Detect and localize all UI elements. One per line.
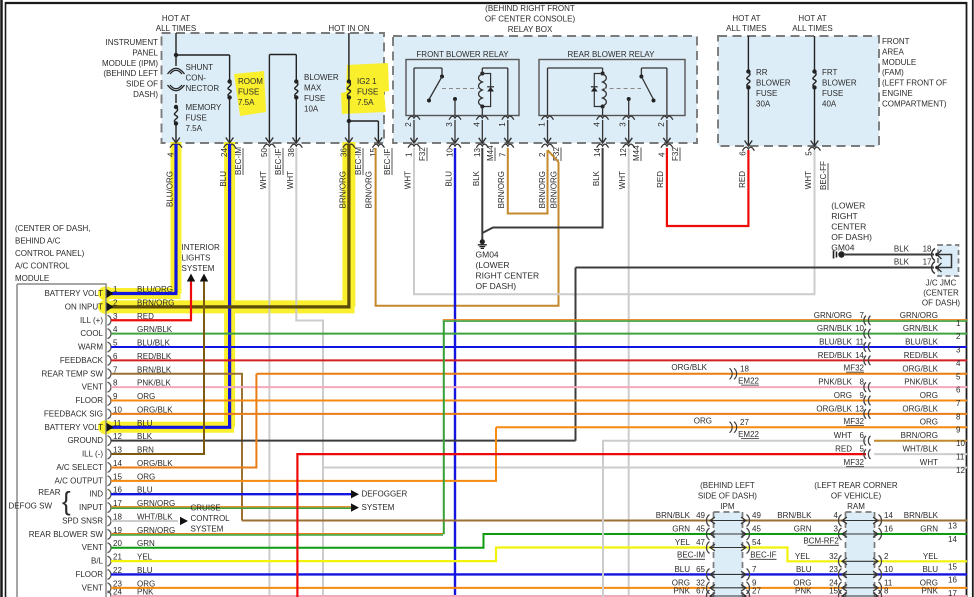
svg-text:7.5A: 7.5A	[238, 98, 255, 107]
node J/C row 1	[864, 316, 866, 326]
svg-text:13: 13	[855, 404, 864, 413]
svg-text:24: 24	[220, 148, 229, 157]
svg-text:RED/BLK: RED/BLK	[904, 351, 939, 360]
svg-text:PNK: PNK	[922, 587, 939, 596]
svg-text:RIGHT CENTER: RIGHT CENTER	[476, 271, 540, 281]
wire ORG/BLK: module pin14 up to EM22 row	[111, 374, 256, 468]
svg-text:WHT: WHT	[286, 171, 295, 189]
svg-text:(FAM): (FAM)	[882, 68, 904, 77]
svg-text:HOT IN ON: HOT IN ON	[328, 24, 369, 33]
svg-text:A/C SELECT: A/C SELECT	[56, 463, 103, 472]
svg-text:ON INPUT: ON INPUT	[65, 302, 103, 311]
ground GM04 (lower right center of dash)	[480, 239, 485, 244]
strip row YEL	[707, 542, 710, 554]
svg-text:BRN/ORG: BRN/ORG	[497, 171, 506, 208]
svg-text:ALL TIMES: ALL TIMES	[726, 24, 766, 33]
svg-text:4: 4	[593, 122, 602, 127]
svg-text:HOT AT: HOT AT	[162, 14, 190, 23]
svg-text:6: 6	[956, 386, 961, 395]
svg-text:(LEFT FRONT OF: (LEFT FRONT OF	[882, 79, 947, 88]
wire WHT: IPM pin38 with jog, down off page	[296, 148, 323, 597]
svg-text:27: 27	[752, 587, 761, 596]
wire BRN/ORG: relay pin7 to rear relay pin2 (U link)	[508, 148, 548, 214]
module pin 23 ORG	[108, 583, 112, 593]
svg-text:14: 14	[884, 511, 893, 520]
svg-text:WHT: WHT	[404, 171, 413, 189]
svg-text:38: 38	[287, 148, 296, 157]
svg-text:BLU: BLU	[674, 565, 690, 574]
svg-text:18: 18	[923, 245, 932, 254]
svg-text:10A: 10A	[304, 105, 319, 114]
svg-text:BLU/ORG: BLU/ORG	[137, 285, 173, 294]
svg-text:(BEHIND LEFT: (BEHIND LEFT	[700, 481, 755, 490]
svg-text:10: 10	[884, 565, 893, 574]
svg-text:1: 1	[498, 122, 507, 127]
svg-text:7.5A: 7.5A	[357, 98, 374, 107]
strip row ORG	[707, 582, 710, 594]
svg-text:SIDE OF: SIDE OF	[126, 80, 158, 89]
svg-text:GRN/ORG: GRN/ORG	[900, 311, 938, 320]
svg-text:BRN/ORG: BRN/ORG	[550, 171, 559, 208]
svg-text:PNK: PNK	[795, 587, 812, 596]
svg-text:11: 11	[113, 419, 122, 428]
svg-text:MF32: MF32	[844, 363, 865, 372]
ground GM04 (second symbol)	[834, 251, 837, 259]
relay box	[393, 36, 697, 143]
svg-text:18: 18	[740, 364, 749, 373]
J/C JMC box (center of dash)	[938, 245, 959, 276]
wire GRN/BLK: module pin4 to right edge	[111, 333, 967, 335]
svg-text:ALL TIMES: ALL TIMES	[156, 24, 196, 33]
module pin 5 BLU/BLK	[108, 342, 112, 352]
svg-text:IG2 1: IG2 1	[357, 77, 377, 86]
svg-text:6: 6	[738, 151, 747, 156]
svg-text:CONTROL: CONTROL	[191, 514, 231, 523]
svg-text:BATTERY VOLT: BATTERY VOLT	[44, 423, 103, 432]
module pin 8 PNK/BLK	[108, 382, 112, 392]
wire BRN/BLK: module pin7 down to IPM connector row	[111, 374, 242, 521]
svg-text:{: {	[62, 486, 71, 516]
svg-text:(LEFT REAR CORNER: (LEFT REAR CORNER	[814, 481, 898, 490]
svg-text:ALL TIMES: ALL TIMES	[792, 24, 832, 33]
svg-text:GRN/ORG: GRN/ORG	[814, 311, 852, 320]
svg-text:GRN: GRN	[920, 525, 938, 534]
svg-text:WHT/BLK: WHT/BLK	[902, 445, 938, 454]
wire ORG row to EM22 pin27 and right edge	[496, 426, 967, 428]
svg-text:8: 8	[884, 587, 889, 596]
svg-text:VENT: VENT	[82, 543, 103, 552]
relay box output pins	[408, 144, 420, 148]
highlight IG2 1 FUSE label	[341, 63, 389, 114]
svg-text:BEC-IF: BEC-IF	[383, 149, 392, 175]
svg-text:ENGINE: ENGINE	[882, 89, 913, 98]
module pin 20 GRN	[108, 543, 112, 553]
svg-text:3: 3	[445, 122, 454, 127]
svg-text:NECTOR: NECTOR	[186, 84, 220, 93]
svg-text:2: 2	[404, 122, 413, 127]
svg-text:REAR BLOWER RELAY: REAR BLOWER RELAY	[568, 50, 656, 59]
svg-text:VENT: VENT	[82, 583, 103, 592]
svg-text:8: 8	[860, 378, 865, 387]
node J/C row 11	[864, 449, 866, 459]
RAM strip outline	[846, 512, 875, 597]
svg-text:MODULE: MODULE	[15, 274, 49, 283]
svg-text:J/C JMC: J/C JMC	[926, 279, 957, 288]
svg-text:OF DASH): OF DASH)	[476, 281, 517, 291]
cruise control system arrow	[180, 517, 188, 525]
wire GRN/ORG: module pin19 up to J/C row 1	[111, 533, 443, 535]
wire BLK: module pin12 to J/C (vertical drawn above)	[111, 440, 576, 442]
svg-text:ILL (+): ILL (+)	[80, 316, 103, 325]
svg-text:30A: 30A	[756, 100, 771, 109]
svg-text:SHUNT: SHUNT	[186, 63, 214, 72]
svg-text:27: 27	[740, 418, 749, 427]
svg-text:10: 10	[956, 439, 965, 448]
svg-text:WHT: WHT	[920, 458, 938, 467]
svg-text:RED: RED	[738, 171, 747, 188]
svg-text:A/C OUTPUT: A/C OUTPUT	[55, 476, 104, 485]
svg-text:45: 45	[696, 525, 705, 534]
connector EM22 pin18	[734, 368, 737, 379]
wire WHT: relay pin1 to FAM pin5	[414, 148, 815, 294]
svg-text:ORG: ORG	[694, 416, 712, 425]
svg-text:65: 65	[696, 565, 705, 574]
svg-text:OF CENTER CONSOLE): OF CENTER CONSOLE)	[485, 15, 576, 24]
svg-text:MF32: MF32	[844, 417, 865, 426]
node J/C row 8	[864, 409, 866, 419]
svg-text:GM04: GM04	[476, 250, 499, 260]
svg-text:FRONT: FRONT	[882, 37, 910, 46]
svg-text:BRN/ORG: BRN/ORG	[365, 171, 374, 208]
svg-text:ORG: ORG	[920, 418, 938, 427]
module pin 19 GRN/ORG	[108, 529, 112, 539]
svg-text:5: 5	[860, 445, 865, 454]
svg-text:WHT: WHT	[618, 171, 627, 189]
wire BLK: GM04 to J/C JMC pin 18	[845, 254, 934, 256]
node J/C row 2	[864, 329, 866, 339]
wire BRN/BLK row 13 to right edge	[242, 520, 967, 522]
svg-text:14: 14	[948, 535, 957, 544]
node J/C row 3	[864, 342, 866, 352]
wire RED: module pin3 to interior lights	[111, 282, 191, 321]
svg-text:ORG/BLK: ORG/BLK	[671, 363, 707, 372]
wire ORG/BLK: module pin10 to right edge	[111, 413, 967, 415]
svg-text:7: 7	[956, 399, 961, 408]
svg-text:BEC-IM: BEC-IM	[677, 551, 705, 560]
svg-text:YEL: YEL	[675, 538, 691, 547]
svg-text:BLU: BLU	[922, 565, 938, 574]
wire GRN: module pin20 up to strip row	[111, 534, 967, 548]
svg-text:BLOWER: BLOWER	[304, 73, 339, 82]
svg-text:14: 14	[593, 148, 602, 157]
node J/C row 4	[864, 356, 866, 366]
svg-text:BLU/BLK: BLU/BLK	[819, 338, 853, 347]
wire BLU: relay pin10 down off page	[454, 148, 456, 597]
svg-text:MF32: MF32	[844, 458, 865, 467]
svg-text:F32: F32	[671, 147, 680, 161]
blower max fuse 10A jumper	[268, 55, 270, 143]
svg-text:BLU: BLU	[445, 171, 454, 187]
svg-text:WHT: WHT	[259, 171, 268, 189]
module pin 22 BLU	[108, 569, 112, 579]
svg-text:BLOWER: BLOWER	[822, 79, 857, 88]
svg-text:BEC-IF: BEC-IF	[274, 149, 283, 175]
svg-text:49: 49	[752, 511, 761, 520]
svg-text:5: 5	[805, 151, 814, 156]
svg-text:13: 13	[473, 148, 482, 157]
svg-text:1: 1	[113, 285, 118, 294]
svg-text:DEFOGGER: DEFOGGER	[362, 490, 408, 499]
svg-text:6: 6	[860, 431, 865, 440]
svg-text:FLOOR: FLOOR	[75, 396, 103, 405]
svg-text:YEL: YEL	[923, 552, 939, 561]
svg-text:BLU: BLU	[219, 171, 228, 187]
svg-text:4: 4	[657, 152, 666, 157]
svg-text:2: 2	[657, 122, 666, 127]
svg-text:BRN/ORG: BRN/ORG	[538, 171, 547, 208]
wire WHT: IPM pin50 down off page	[268, 148, 270, 597]
wire RED: from bottom edge up to J/C row 11	[297, 454, 866, 597]
svg-text:SYSTEM: SYSTEM	[182, 264, 215, 273]
IPM strip outline	[714, 512, 743, 597]
svg-text:ORG: ORG	[834, 391, 852, 400]
svg-text:REAR TEMP SW: REAR TEMP SW	[42, 369, 104, 378]
svg-text:2: 2	[884, 552, 889, 561]
svg-text:(LOWER: (LOWER	[476, 260, 510, 270]
memory fuse 7.5A	[174, 105, 178, 109]
module pin 4 GRN/BLK	[108, 329, 112, 339]
svg-text:MODULE (IPM): MODULE (IPM)	[102, 59, 158, 68]
svg-text:CRUISE: CRUISE	[191, 504, 221, 513]
svg-text:CONTROL PANEL): CONTROL PANEL)	[15, 249, 85, 258]
svg-text:ORG/BLK: ORG/BLK	[816, 404, 852, 413]
svg-text:GRN/BLK: GRN/BLK	[903, 324, 939, 333]
svg-text:17: 17	[948, 589, 957, 597]
svg-text:INTERIOR: INTERIOR	[182, 243, 220, 252]
svg-text:7: 7	[498, 152, 507, 157]
svg-text:CENTER: CENTER	[831, 222, 866, 232]
svg-text:BRN/ORG: BRN/ORG	[137, 298, 174, 307]
svg-text:1: 1	[405, 152, 414, 157]
room fuse 7.5A	[229, 55, 231, 80]
svg-text:VENT: VENT	[82, 383, 103, 392]
svg-text:2: 2	[113, 298, 118, 307]
svg-text:40A: 40A	[822, 100, 837, 109]
svg-text:SYSTEM: SYSTEM	[362, 503, 395, 512]
module pin 10 ORG/BLK	[108, 409, 112, 419]
svg-text:B/L: B/L	[91, 557, 104, 566]
svg-text:PNK/BLK: PNK/BLK	[818, 378, 852, 387]
svg-text:SYSTEM: SYSTEM	[191, 525, 224, 534]
YEL jog row via RAM pin32	[839, 555, 842, 567]
svg-text:RELAY BOX: RELAY BOX	[508, 25, 553, 34]
wire BLU: module pin22 to right edge	[111, 573, 967, 575]
svg-text:3: 3	[834, 525, 839, 534]
highlight ROOM FUSE label	[234, 71, 266, 116]
svg-text:DASH): DASH)	[133, 90, 158, 99]
page border frame	[0, 0, 3, 597]
svg-text:BLU/BLK: BLU/BLK	[905, 338, 939, 347]
rear blower relay	[539, 60, 685, 116]
svg-text:4: 4	[472, 122, 481, 127]
wire WHT: from bottom edge up to J/C row 10	[603, 441, 866, 597]
svg-text:54: 54	[752, 538, 761, 547]
svg-text:2: 2	[538, 152, 547, 157]
FAM output pins 6,5	[742, 147, 754, 151]
strip row BLU	[707, 568, 710, 580]
svg-text:GRN: GRN	[794, 525, 812, 534]
wire BRN/ORG: IPM pin15 to rear blower relay pin1	[376, 148, 559, 306]
wire GRN/ORG row1 to right edge	[443, 319, 967, 321]
svg-text:BEC-IM: BEC-IM	[234, 147, 243, 175]
RR blower fuse 30A	[747, 36, 749, 70]
wire ORG: module pin15 up to EM22 row	[111, 427, 496, 481]
svg-text:BATTERY VOLT: BATTERY VOLT	[44, 289, 103, 298]
svg-text:REAR BLOWER SW: REAR BLOWER SW	[29, 530, 104, 539]
wire PNK/BLK: module pin8 to right edge	[111, 386, 967, 388]
module pin 1 BLU/ORG	[107, 289, 114, 298]
svg-text:BRN/BLK: BRN/BLK	[777, 511, 812, 520]
svg-text:FUSE: FUSE	[822, 89, 843, 98]
wire BLK: relay pin14 joins ground wire	[482, 148, 602, 233]
svg-text:OF VEHICLE): OF VEHICLE)	[831, 492, 882, 501]
svg-text:A/C CONTROL: A/C CONTROL	[15, 262, 70, 271]
wire ORG: module pin9 to right edge	[111, 400, 967, 402]
wire RED/BLK: module pin6 to right edge	[111, 359, 967, 361]
svg-text:8: 8	[956, 412, 961, 421]
svg-text:36: 36	[339, 148, 348, 157]
svg-text:GRN: GRN	[672, 525, 690, 534]
svg-text:OF DASH): OF DASH)	[831, 232, 872, 242]
svg-text:IPM: IPM	[720, 502, 735, 511]
svg-text:GRN/BLK: GRN/BLK	[817, 324, 853, 333]
highlight marker trails	[171, 142, 182, 294]
wire BLK: relay pin13 to ground GM04	[481, 148, 483, 243]
strip row GRN	[707, 528, 710, 540]
svg-text:PNK: PNK	[674, 587, 691, 596]
module pin 24 PNK	[108, 591, 112, 597]
svg-text:BLOWER: BLOWER	[756, 79, 791, 88]
svg-text:BRN/BLK: BRN/BLK	[904, 511, 939, 520]
wire WHT: rear relay pin12 down off page	[628, 148, 630, 597]
svg-text:HOT AT: HOT AT	[732, 14, 760, 23]
module pin 15 ORG	[108, 476, 112, 486]
wire ORG: module pin23 to right edge	[111, 587, 967, 589]
svg-text:BEC-IF: BEC-IF	[750, 551, 776, 560]
svg-text:WHT: WHT	[804, 171, 813, 189]
svg-text:BLK: BLK	[894, 258, 910, 267]
svg-text:BLK: BLK	[592, 170, 601, 186]
svg-text:RED: RED	[656, 171, 665, 188]
svg-text:ORG: ORG	[920, 391, 938, 400]
wire BLU: module pin16 to defogger system	[111, 493, 351, 495]
svg-text:YEL: YEL	[795, 552, 811, 561]
svg-text:PANEL: PANEL	[132, 48, 158, 57]
wire: battery feed into IPM	[175, 33, 177, 53]
svg-text:5: 5	[956, 372, 961, 381]
strip row BRN/BLK	[707, 515, 710, 527]
node J/C row 7	[864, 396, 866, 406]
svg-text:FUSE: FUSE	[186, 114, 207, 123]
module pin 7 BRN/BLK	[108, 369, 112, 379]
wire ORG/BLK row to EM22 pin18 and right edge	[256, 373, 967, 375]
svg-text:FUSE: FUSE	[304, 94, 325, 103]
svg-text:EM22: EM22	[738, 430, 759, 439]
svg-text:ROOM: ROOM	[238, 77, 263, 86]
svg-text:BLK: BLK	[472, 170, 481, 186]
svg-text:12: 12	[956, 466, 965, 475]
node J/C row 10	[864, 436, 866, 446]
wire GRN/ORG: module pin17 to defogger system	[111, 506, 351, 508]
svg-text:WARM: WARM	[78, 343, 103, 352]
IPM output pins 4,24,50,38,36,15	[170, 144, 182, 148]
svg-text:MODULE: MODULE	[882, 58, 916, 67]
connector EM22 pin27	[734, 422, 737, 433]
svg-text:1: 1	[956, 319, 961, 328]
svg-text:ILL (-): ILL (-)	[82, 450, 103, 459]
svg-text:IND: IND	[89, 490, 103, 499]
svg-text:7.5A: 7.5A	[186, 124, 203, 133]
svg-text:FUSE: FUSE	[238, 88, 259, 97]
svg-text:F32: F32	[418, 147, 427, 161]
svg-text:3: 3	[619, 122, 628, 127]
svg-text:15: 15	[948, 562, 957, 571]
svg-text:32: 32	[829, 552, 838, 561]
svg-text:50: 50	[260, 148, 269, 157]
wire BLK: module pin12 to J/C JMC pin 17	[576, 267, 935, 269]
svg-text:BLU/ORG: BLU/ORG	[166, 171, 175, 207]
front relay coil + diode	[480, 72, 484, 76]
svg-text:FUSE: FUSE	[357, 88, 378, 97]
wire YEL: module pin21 up to strip row	[111, 548, 967, 562]
svg-text:1: 1	[538, 122, 547, 127]
svg-text:BLU: BLU	[137, 419, 153, 428]
svg-text:BLU: BLU	[796, 565, 812, 574]
wire WHT/BLK: module pin18 to cruise control	[111, 520, 178, 522]
svg-text:M44: M44	[486, 145, 495, 161]
instrument panel module (IPM) box	[162, 33, 385, 143]
svg-text:WHT: WHT	[834, 431, 852, 440]
svg-text:BRN/ORG: BRN/ORG	[901, 431, 938, 440]
svg-text:DEFOG SW: DEFOG SW	[8, 502, 52, 511]
module pin 18 WHT/BLK	[108, 516, 112, 526]
svg-text:9: 9	[956, 426, 961, 435]
svg-text:BLK: BLK	[894, 245, 910, 254]
module pin 13 BRN	[108, 449, 112, 459]
svg-text:BRN/ORG: BRN/ORG	[339, 171, 348, 208]
wire BLU: IPM pin24 to module pin11	[228, 144, 231, 427]
svg-text:BEC-IM: BEC-IM	[354, 147, 363, 175]
module pin 11 BLU	[107, 423, 114, 432]
svg-text:7: 7	[752, 565, 757, 574]
svg-text:47: 47	[696, 538, 705, 547]
svg-text:4: 4	[167, 152, 176, 157]
svg-text:(BEHIND RIGHT FRONT: (BEHIND RIGHT FRONT	[485, 4, 575, 13]
svg-text:4: 4	[834, 511, 839, 520]
module pin 12 BLK	[108, 436, 112, 446]
svg-text:COOL: COOL	[80, 329, 103, 338]
module pin 9 ORG	[108, 396, 112, 406]
svg-text:PNK/BLK: PNK/BLK	[904, 378, 938, 387]
module pin 16 BLU	[108, 489, 112, 499]
wire BLU/ORG: IPM pin4 to module pin1	[174, 144, 177, 294]
svg-text:RIGHT: RIGHT	[831, 211, 857, 221]
wire BLU/BLK: module pin5 to right edge	[111, 346, 967, 348]
svg-text:REAR: REAR	[38, 488, 60, 497]
wire BRN/ORG: IPM pin36 to module pin2 (thick highlight)	[347, 144, 350, 307]
svg-text:FLOOR: FLOOR	[75, 570, 103, 579]
svg-text:GROUND: GROUND	[67, 436, 103, 445]
